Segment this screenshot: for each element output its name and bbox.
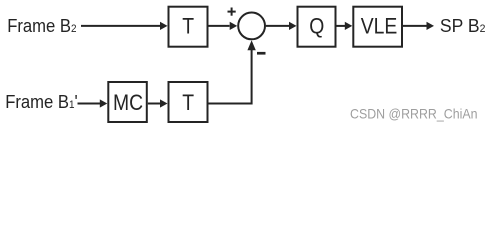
- svg-text:MC: MC: [113, 91, 143, 115]
- svg-text:SP B2: SP B2: [440, 16, 486, 36]
- svg-text:Frame B1': Frame B1': [5, 91, 78, 112]
- svg-text:T: T: [182, 14, 194, 38]
- svg-text:Q: Q: [309, 14, 324, 38]
- svg-text:VLE: VLE: [361, 14, 398, 38]
- svg-text:T: T: [182, 91, 194, 115]
- svg-text:Frame B2: Frame B2: [7, 15, 77, 36]
- svg-text:CSDN @RRRR_ChiAn: CSDN @RRRR_ChiAn: [350, 105, 478, 121]
